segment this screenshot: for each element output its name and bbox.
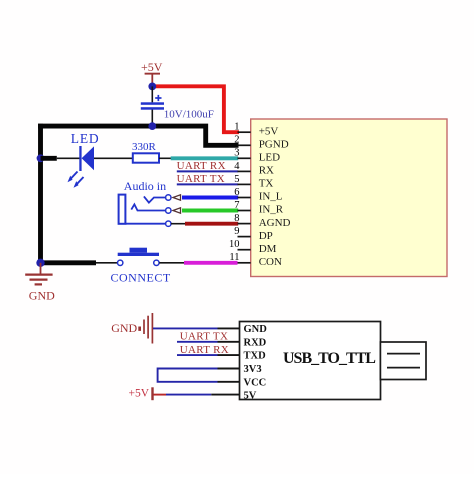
svg-text:330R: 330R [132, 141, 157, 153]
ground GND left [25, 263, 55, 303]
svg-text:LED: LED [71, 131, 100, 146]
svg-text:7: 7 [234, 200, 239, 211]
module U1 pin 6 IN_L [234, 187, 283, 203]
wire black top bus to PGND [38, 126, 239, 145]
wire usb 5V [166, 394, 211, 396]
wire resistor to net [159, 157, 172, 159]
svg-text:RX: RX [259, 165, 274, 177]
svg-text:VCC: VCC [244, 377, 267, 388]
module U1 pin 7 IN_R [234, 200, 284, 216]
svg-text:TX: TX [259, 178, 274, 190]
svg-text:3: 3 [234, 148, 239, 159]
svg-text:GND: GND [111, 321, 137, 335]
svg-text:UART TX: UART TX [180, 330, 228, 342]
audio jack J1 [119, 195, 171, 227]
wire teal LED net [171, 156, 239, 160]
svg-text:8: 8 [234, 213, 239, 224]
svg-text:9: 9 [234, 226, 239, 237]
svg-text:6: 6 [234, 187, 239, 198]
svg-text:PGND: PGND [259, 139, 289, 151]
switch S1 [118, 248, 160, 266]
svg-text:DM: DM [259, 243, 277, 255]
svg-text:DP: DP [259, 230, 273, 242]
wire usb TXD [177, 354, 218, 356]
power +5V usb [129, 387, 167, 400]
wire 3V3 to VCC loop [158, 369, 218, 382]
usb module U2 box [240, 322, 381, 400]
wire AGND dark red [185, 222, 238, 226]
module U1 pin 8 AGND [234, 213, 290, 229]
svg-text:CON: CON [259, 256, 282, 268]
junction bus gnd [36, 259, 44, 267]
wire gnd to usb GND [153, 327, 218, 329]
capacitor C1 10V/100uF [141, 95, 164, 110]
wire to switch left [96, 262, 118, 264]
module U1 pin 1 +5V [234, 122, 278, 138]
svg-text:IN_R: IN_R [259, 204, 284, 216]
wire switch right [159, 262, 184, 264]
wire IN_L blue [182, 196, 238, 200]
wire AGND link [171, 223, 186, 225]
svg-text:4: 4 [234, 161, 240, 172]
svg-text:GND: GND [29, 289, 55, 303]
svg-text:11: 11 [229, 252, 239, 263]
svg-text:+5V: +5V [259, 125, 279, 137]
svg-text:RXD: RXD [244, 337, 267, 348]
svg-text:USB_TO_TTL: USB_TO_TTL [283, 350, 375, 367]
svg-text:1: 1 [234, 122, 239, 133]
module U1 box [251, 119, 447, 277]
wire LED to resistor [94, 157, 133, 159]
junction LED row [37, 154, 45, 162]
wire UART_RX [177, 170, 238, 172]
module U1 pin 5 TX [234, 174, 273, 190]
svg-text:10: 10 [229, 239, 240, 250]
arrowhead IN_R [173, 208, 181, 213]
wire to LED anode [57, 157, 80, 159]
svg-text:IN_L: IN_L [259, 191, 283, 203]
svg-text:UART RX: UART RX [180, 344, 229, 356]
svg-text:3V3: 3V3 [244, 364, 262, 375]
wire usb RXD [177, 341, 218, 343]
wire thick stub LED row [41, 156, 57, 161]
module U1 pin 11 CON [229, 252, 282, 268]
junction top cap [148, 83, 156, 91]
module U1 pin 10 DM [229, 239, 277, 255]
module U1 pin 3 LED [234, 148, 280, 164]
wire UART_TX [177, 183, 238, 185]
module U1 pin 9 DP [234, 226, 273, 242]
power +5V top [141, 60, 163, 86]
module U1 pin 4 RX [234, 161, 274, 177]
svg-text:+5V: +5V [129, 388, 150, 400]
LED D1 [68, 131, 100, 188]
ground GND usb section [111, 313, 152, 344]
module U1 pin 2 PGND [234, 135, 288, 151]
svg-text:AGND: AGND [259, 217, 291, 229]
svg-text:CONNECT: CONNECT [111, 270, 171, 284]
svg-text:LED: LED [259, 152, 280, 164]
svg-text:5: 5 [234, 174, 239, 185]
bus wire left [38, 124, 43, 263]
junction cap gnd [148, 122, 156, 130]
resistor R1 330R [132, 141, 159, 163]
svg-text:UART RX: UART RX [177, 160, 226, 172]
svg-text:2: 2 [234, 135, 239, 146]
svg-text:+5V: +5V [141, 60, 163, 74]
wire CON magenta [184, 261, 238, 265]
arrowhead IN_L [173, 195, 181, 200]
svg-text:10V/100uF: 10V/100uF [164, 108, 214, 120]
svg-text:TXD: TXD [244, 351, 267, 362]
wire bottom thick [41, 260, 97, 265]
wire red +5V to pin1 [152, 86, 239, 132]
svg-text:Audio in: Audio in [124, 179, 166, 193]
svg-text:GND: GND [244, 324, 268, 335]
svg-text:5V: 5V [244, 391, 257, 402]
capacitor C1 leads [151, 86, 153, 102]
usb plug connector [380, 342, 426, 380]
wire IN_R green [182, 209, 238, 213]
svg-text:UART TX: UART TX [177, 173, 225, 185]
